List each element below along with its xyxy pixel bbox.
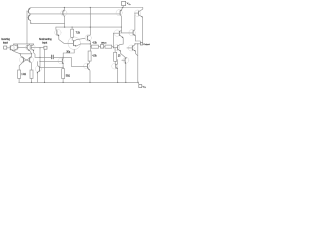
wire long vertical x90.3 upper: [89, 8, 91, 35]
transistor Q19 right pnp second: [121, 13, 135, 41]
node dot cap right junction: [63, 57, 64, 58]
wire base cross X: [24, 58, 30, 61]
svg-text:25: 25: [118, 56, 121, 58]
terminal square VS-: [139, 85, 142, 88]
wire vertical x64.6: [64, 16, 66, 27]
node dot VS+ rail: [122, 7, 123, 8]
resistor R9 vertical below Q7: [88, 51, 91, 61]
transistor Q22 below R9: [84, 61, 90, 82]
node dot output junction left: [135, 43, 136, 44]
wire noninv pin down to rail: [44, 49, 46, 82]
wire Q16 emitter to Q17a base: [59, 38, 68, 43]
wire inverting pin to Q1 base: [7, 47, 11, 49]
resistor R5 vertical below bus: [71, 27, 74, 37]
node dot Q17 base at x40: [39, 61, 40, 62]
wire cap node to Q22 base: [63, 57, 88, 66]
node dot R2 rail: [31, 82, 32, 83]
wire q19 emitter horizontal upper: [136, 41, 141, 44]
transistor Q1 input npn left: [9, 44, 20, 54]
node dot R6 top junction: [63, 67, 64, 68]
wire output node down to rail: [137, 44, 139, 83]
terminal square inverting input: [4, 46, 7, 49]
transistor Q17 center bottom npn: [58, 58, 64, 69]
wire pnp common base: [17, 47, 27, 49]
terminal square center pin: [100, 45, 103, 48]
transistor Q18 below R11: [112, 60, 118, 83]
node dot bus x90.3: [90, 27, 91, 28]
node dot R6 bottom rail: [63, 82, 64, 83]
node dot output junction down: [137, 43, 138, 44]
node dot rail end: [138, 82, 139, 83]
node dot noninv rail: [44, 82, 45, 83]
transistor Q6 lower pair right pnp: [28, 54, 34, 70]
terminal square VS+: [122, 1, 126, 5]
svg-text:4.5k: 4.5k: [93, 43, 98, 45]
transistor Q20 output upper npn: [113, 44, 123, 53]
node dot emitter join right: [31, 53, 32, 54]
terminal square output: [140, 43, 142, 45]
node dot x40 base junction: [39, 67, 40, 68]
wire capacitor left: [35, 56, 52, 58]
svg-text:Output: Output: [143, 43, 150, 46]
transistor Q5 lower pair left pnp: [19, 54, 25, 70]
node dot x40 on noninv wire: [39, 47, 40, 48]
svg-text:7.5k: 7.5k: [76, 33, 81, 35]
svg-text:S+: S+: [129, 4, 131, 6]
transistor Q9 top-left pnp lower: [27, 14, 31, 23]
svg-text:Noninverting: Noninverting: [39, 38, 52, 41]
node dot emitter join left: [20, 53, 21, 54]
node dot x90.3 rail: [90, 7, 91, 8]
svg-text:Inverting: Inverting: [1, 38, 10, 41]
wire rail end to VS-: [138, 82, 139, 84]
resistor R11 vertical right: [114, 52, 117, 61]
svg-text:50Ω: 50Ω: [66, 75, 71, 77]
node dot bus x64.6: [64, 27, 65, 28]
transistor Q4 input pnp right-pair: [26, 44, 32, 54]
node dot Q22 rail: [89, 82, 90, 83]
svg-text:input: input: [3, 42, 8, 45]
wire R2 bottom to rail: [31, 78, 33, 82]
node dot q18 rail: [117, 82, 118, 83]
resistor R1 bottom-left: [18, 70, 21, 78]
transistor Q17a center big npn: [63, 37, 90, 53]
node dot x40 cap wire: [39, 57, 40, 58]
transistor Q15 right mid npn: [113, 30, 123, 44]
wire T20 base line y67.3: [40, 66, 63, 68]
node dot q20 base junction: [113, 47, 114, 48]
resistor R2 bottom-left second: [30, 70, 33, 78]
terminal square noninverting input: [44, 46, 47, 49]
transistor Q12 top-center pnp: [61, 8, 67, 17]
wire output horizontal: [135, 43, 140, 45]
wire R1 bottom to rail: [18, 78, 20, 82]
wire x63.2 vertical cap junction: [62, 53, 64, 59]
node dot R5 top on bus: [72, 27, 73, 28]
wire bottom supply rail: [19, 81, 139, 83]
node dot output of Q17a on x90.3: [90, 43, 91, 44]
transistor Q10 bottom left-center: [35, 62, 41, 83]
svg-text:4.5k: 4.5k: [92, 56, 97, 58]
wire line y23.6: [31, 23, 65, 25]
transistor Q17b right lower npn: [121, 54, 129, 83]
wire x90.3 lower segment: [89, 41, 91, 51]
wire noninv branch vertical x40: [39, 48, 41, 68]
svg-text:input: input: [42, 42, 47, 45]
wire left mirror base vertical x27: [26, 11, 28, 44]
wire pnp base bus y13.9: [31, 13, 120, 15]
node dot q17b rail: [125, 82, 126, 83]
resistor R8 horizontal center right: [104, 45, 114, 48]
transistor Q2 input npn right: [30, 44, 36, 57]
svg-text:1 kΩ: 1 kΩ: [21, 74, 26, 76]
node dot pair1 top: [17, 44, 18, 45]
wire capacitor right: [53, 56, 63, 58]
wire Q17 base line: [40, 60, 62, 62]
transistor Q21 output second npn: [127, 44, 138, 56]
node dot Q12 emitter on rail: [64, 7, 65, 8]
resistor R6 vertical center bottom: [62, 69, 65, 83]
svg-text:S-: S-: [144, 87, 146, 89]
node dot bus end x121.4: [121, 27, 122, 28]
wire VS+ down to rail: [122, 6, 124, 8]
resistor R7 horizontal center: [90, 45, 100, 48]
wire collector bus to mirror feed: [14, 43, 34, 45]
transistor Q7 mid npn in series x90: [85, 35, 91, 42]
transistor Q16 center pnp below bus: [55, 27, 61, 38]
wire emitter join line: [20, 53, 31, 55]
transistor Q13 top right pnp: [116, 8, 122, 33]
wire top supply rail: [31, 7, 143, 9]
transistor Q3 input pnp left-pair: [13, 45, 19, 51]
wire q15 base feed vertical x113.4: [113, 33, 115, 52]
svg-text:Offset: Offset: [101, 42, 107, 45]
capacitor C1 plates: [52, 55, 54, 59]
wire bus y27.1: [56, 26, 122, 28]
wire noninv pin left to Q2 base: [31, 47, 44, 49]
transistor Q14 top right npn: [134, 8, 142, 43]
transistor Q8 top-left pnp upper: [27, 8, 31, 14]
